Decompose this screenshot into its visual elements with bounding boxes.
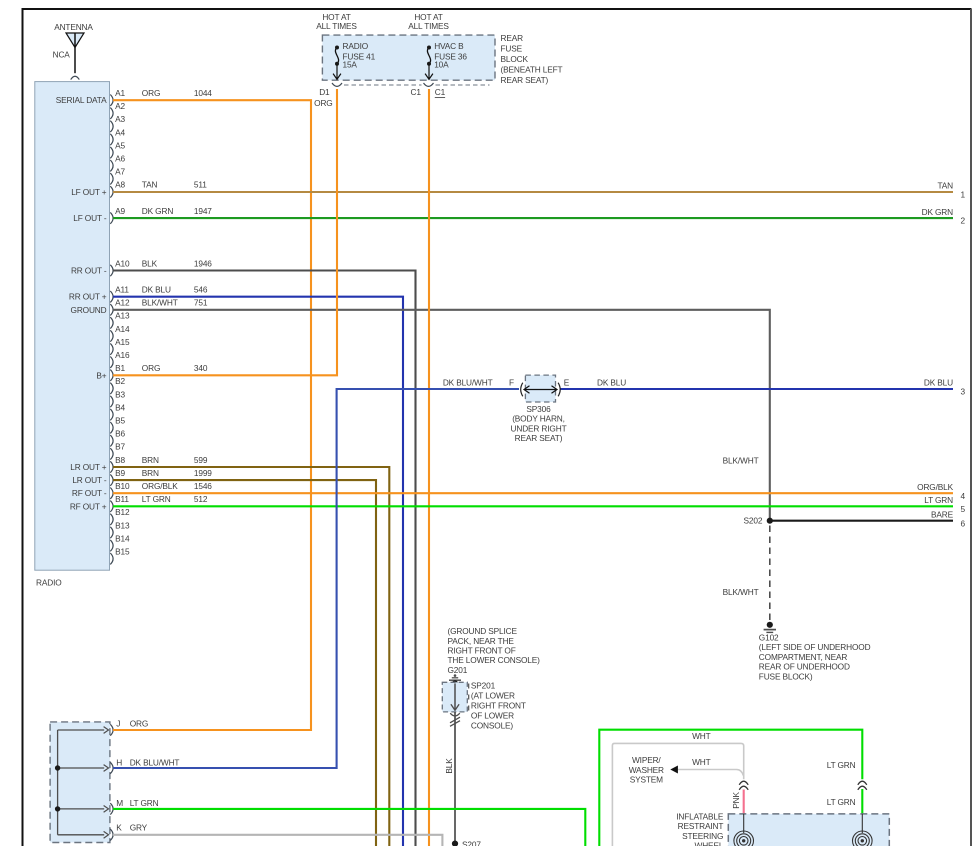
wire BLK from SP201 to S207 [454,712,456,846]
svg-text:6: 6 [961,518,966,528]
svg-text:ALL TIMES: ALL TIMES [316,21,357,31]
svg-text:HVAC B: HVAC B [434,41,464,51]
svg-text:A15: A15 [115,337,130,347]
wire DK BLU from SP306 to right edge [561,388,954,390]
svg-text:3: 3 [961,387,966,397]
svg-text:2: 2 [961,216,966,226]
svg-text:A1: A1 [115,88,125,98]
HOT AT ALL TIMES labels [316,12,449,31]
right edge circuit name labels and numbers [917,181,965,529]
svg-text:FUSE BLOCK): FUSE BLOCK) [759,671,813,681]
svg-text:1546: 1546 [194,481,212,491]
svg-text:REAR OF UNDERHOOD: REAR OF UNDERHOOD [759,662,850,672]
svg-text:UNDER RIGHT: UNDER RIGHT [511,423,567,433]
svg-text:D1: D1 [319,87,330,97]
coil lead left [743,814,745,833]
svg-text:THE LOWER CONSOLE): THE LOWER CONSOLE) [448,655,541,665]
svg-text:RIGHT FRONT: RIGHT FRONT [471,700,526,710]
svg-text:A16: A16 [115,350,130,360]
connector pin K [58,823,148,841]
svg-text:A11: A11 [115,285,129,295]
svg-text:NCA: NCA [53,49,71,59]
svg-text:B+: B+ [96,370,106,380]
svg-text:DK BLU: DK BLU [924,378,953,388]
svg-text:B8: B8 [115,455,125,465]
svg-text:ORG: ORG [314,98,332,108]
wire B1 ORG 340 to fuse D1 [113,89,337,375]
svg-text:B9: B9 [115,468,125,478]
svg-text:J: J [116,719,120,729]
svg-text:B12: B12 [115,507,130,517]
svg-text:LT GRN: LT GRN [142,494,171,504]
svg-text:SP201: SP201 [471,680,496,690]
radio pin function labels [56,95,107,511]
svg-text:ALL TIMES: ALL TIMES [408,21,449,31]
svg-text:B6: B6 [115,429,125,439]
break symbol LT GRN [858,781,867,790]
svg-text:COMPARTMENT, NEAR: COMPARTMENT, NEAR [759,652,848,662]
junction dot pin H [55,765,60,770]
svg-text:SYSTEM: SYSTEM [630,774,663,784]
svg-text:FUSE: FUSE [501,44,523,54]
svg-text:BLK: BLK [142,258,158,268]
svg-text:STEERING: STEERING [682,831,723,841]
svg-text:DK BLU: DK BLU [142,285,171,295]
svg-text:M: M [116,798,123,808]
svg-text:REAR SEAT): REAR SEAT) [501,75,549,85]
svg-text:WASHER: WASHER [629,765,664,775]
wire B8 BRN 599 [113,467,389,846]
splice S202 [744,516,773,526]
svg-text:LT GRN: LT GRN [827,760,856,770]
svg-text:G102: G102 [759,633,779,643]
splice pack SP201 dashed box [442,682,467,712]
svg-text:DK BLU/WHT: DK BLU/WHT [443,377,493,387]
svg-text:INFLATABLE: INFLATABLE [676,811,724,821]
svg-text:BLOCK: BLOCK [501,54,529,64]
svg-text:TAN: TAN [142,180,158,190]
REAR FUSE BLOCK caption [501,33,563,85]
svg-text:BLK/WHT: BLK/WHT [723,587,759,597]
SP201 caption [471,680,526,730]
wire A11 DK BLU 546 [113,297,403,846]
svg-text:B11: B11 [115,494,129,504]
svg-text:BLK/WHT: BLK/WHT [142,298,178,308]
wire B11 LT GRN 512 [113,505,953,507]
svg-text:1044: 1044 [194,88,212,98]
SP306 caption [511,404,567,443]
WIPER WASHER SYSTEM caption [629,755,664,784]
steering wheel module dashed box [728,814,889,846]
connector pin J [58,719,149,736]
radio connector box [35,82,110,571]
svg-text:LT GRN: LT GRN [924,495,953,505]
radio wire name and circuit number labels [142,88,212,504]
INFLATABLE RESTRAINT caption [676,811,724,846]
svg-text:ANTENNA: ANTENNA [54,22,93,32]
junction dot pin M [55,806,60,811]
svg-text:B15: B15 [115,547,130,557]
svg-text:A12: A12 [115,298,130,308]
wire BARE from S202 to right edge [770,520,953,522]
svg-text:TAN: TAN [937,181,953,191]
connector pin M [58,798,159,814]
svg-text:A4: A4 [115,127,125,137]
svg-text:B13: B13 [115,520,130,530]
svg-text:1: 1 [961,190,966,200]
wire A9 DK GRN 1947 [113,217,953,219]
svg-text:B2: B2 [115,376,125,386]
svg-text:A7: A7 [115,167,125,177]
svg-text:GROUND: GROUND [71,305,107,315]
svg-text:RADIO: RADIO [343,41,369,51]
connector C1 receptacle arc [424,83,434,86]
splice S207 [452,840,481,846]
svg-text:RF OUT +: RF OUT + [70,501,107,511]
svg-text:(AT LOWER: (AT LOWER [471,690,515,700]
svg-text:512: 512 [194,494,208,504]
svg-text:S207: S207 [462,840,481,846]
svg-text:A13: A13 [115,311,130,321]
svg-text:LT GRN: LT GRN [130,798,159,808]
svg-text:BRN: BRN [142,455,159,465]
svg-text:A2: A2 [115,101,125,111]
svg-text:A5: A5 [115,140,125,150]
connector D1 receptacle arc [332,83,342,86]
svg-text:B7: B7 [115,442,125,452]
splice SP306 dashed box [525,375,555,402]
SP306 double arrow [524,386,557,394]
svg-text:H: H [116,758,122,768]
svg-text:A6: A6 [115,154,125,164]
ground G102 symbol [764,622,776,633]
internal bus wire [57,730,59,835]
svg-text:SP306: SP306 [526,404,551,414]
wire M LT GRN [113,809,585,846]
svg-text:1999: 1999 [194,468,212,478]
svg-text:S202: S202 [744,516,763,526]
svg-text:RADIO: RADIO [36,578,62,588]
svg-text:BARE: BARE [931,509,954,519]
svg-text:DK BLU/WHT: DK BLU/WHT [130,758,180,768]
svg-text:B5: B5 [115,416,125,426]
svg-text:CONSOLE): CONSOLE) [471,721,514,731]
wire B10 ORG/BLK 1546 [113,492,953,494]
wire LT GRN horn circuit [599,730,862,846]
svg-text:ORG: ORG [142,363,160,373]
svg-text:LR OUT +: LR OUT + [70,462,107,472]
svg-text:K: K [116,823,122,833]
wire C1 ORG from fuse down [428,89,430,846]
coil lead right [861,814,863,833]
rear fuse block dashed box [322,35,495,80]
svg-text:PNK: PNK [731,791,741,808]
svg-text:340: 340 [194,363,208,373]
svg-text:546: 546 [194,285,208,295]
svg-text:ORG: ORG [142,88,160,98]
svg-text:LT GRN: LT GRN [827,797,856,807]
svg-text:B10: B10 [115,481,130,491]
wire J ORG stub [113,729,311,731]
svg-text:DK BLU: DK BLU [597,377,626,387]
G201 caption [448,626,541,675]
svg-text:A3: A3 [115,114,125,124]
svg-text:(BENEATH LEFT: (BENEATH LEFT [501,65,563,75]
svg-text:DK GRN: DK GRN [142,206,174,216]
svg-text:15A: 15A [343,59,358,69]
svg-text:(BODY HARN,: (BODY HARN, [512,414,565,424]
svg-text:(LEFT SIDE OF UNDERHOOD: (LEFT SIDE OF UNDERHOOD [759,642,871,652]
svg-text:WHEEL: WHEEL [695,841,724,846]
wire H DK BLU/WHT stub [113,767,337,769]
SP306 right paren [558,383,560,397]
svg-text:599: 599 [194,455,208,465]
svg-text:A8: A8 [115,180,125,190]
G102 caption [759,633,871,682]
wire A8 TAN 511 [113,191,953,193]
svg-text:ORG: ORG [130,719,148,729]
svg-text:G201: G201 [448,665,468,675]
ground G201 symbol [449,674,461,686]
fuse HVAC B FUSE 36 10A [425,41,467,79]
dashed BLK/WHT wire to G102 [769,526,771,622]
page border frame [22,9,24,846]
svg-text:REAR SEAT): REAR SEAT) [515,433,563,443]
svg-text:RR OUT +: RR OUT + [69,292,107,302]
wire A12 BLK/WHT 751 [113,310,770,519]
connector pin H [58,758,180,774]
svg-text:E: E [564,377,570,387]
break symbol WHT/PNK [739,781,748,790]
svg-text:B14: B14 [115,533,130,543]
svg-text:RR OUT -: RR OUT - [71,266,107,276]
coil right (clockspring) [853,831,873,846]
svg-text:C1: C1 [435,87,446,97]
svg-text:B4: B4 [115,402,125,412]
wire DK BLU/WHT from SP306 to connector H [113,389,519,768]
svg-text:511: 511 [194,180,207,190]
svg-text:A10: A10 [115,258,130,268]
svg-text:B3: B3 [115,389,125,399]
svg-text:LR OUT -: LR OUT - [72,475,107,485]
svg-text:WIPER/: WIPER/ [632,755,661,765]
svg-text:B1: B1 [115,363,125,373]
SP306 left paren [521,383,523,397]
antenna symbol [53,22,94,80]
wire B9 BRN 1999 [113,480,376,846]
svg-text:LF OUT +: LF OUT + [71,187,107,197]
wire K GRY [113,835,442,846]
svg-text:(GROUND SPLICE: (GROUND SPLICE [448,626,518,636]
wire PNK [743,790,745,814]
radio pin terminals and pin number labels [110,88,130,564]
svg-text:RESTRAINT: RESTRAINT [678,821,724,831]
wire A1 ORG serial data [113,100,311,730]
svg-text:OF LOWER: OF LOWER [471,710,514,720]
svg-text:ORG/BLK: ORG/BLK [142,481,178,491]
svg-text:LF OUT -: LF OUT - [73,213,107,223]
wire A10 BLK 1946 [113,271,416,846]
WHT wire to wiper system arrow [678,770,744,776]
svg-text:ORG/BLK: ORG/BLK [917,482,953,492]
svg-text:BLK: BLK [444,758,454,774]
svg-text:RIGHT FRONT OF: RIGHT FRONT OF [448,646,516,656]
svg-text:A14: A14 [115,324,130,334]
svg-text:5: 5 [961,504,966,514]
svg-text:F: F [509,377,514,387]
wiper arrow head [670,766,678,774]
svg-text:PACK, NEAR THE: PACK, NEAR THE [448,636,515,646]
SP201 internal arrow [451,683,459,710]
SP201 bracket marks [468,684,470,711]
svg-text:BRN: BRN [142,468,159,478]
coil left (clockspring) [734,831,754,846]
svg-text:WHT: WHT [692,757,711,767]
svg-text:4: 4 [961,491,966,501]
svg-text:BLK/WHT: BLK/WHT [723,456,759,466]
svg-text:WHT: WHT [692,731,711,741]
svg-text:C1: C1 [410,87,421,97]
svg-text:GRY: GRY [130,823,148,833]
svg-text:10A: 10A [434,59,449,69]
svg-text:SERIAL DATA: SERIAL DATA [56,95,107,105]
splice pack symbol below box [450,713,460,726]
svg-text:751: 751 [194,298,208,308]
svg-text:REAR: REAR [501,33,524,43]
svg-text:A9: A9 [115,206,125,216]
wiper washer system box [612,743,743,846]
connector dashed face line [344,84,422,86]
svg-text:1947: 1947 [194,206,212,216]
svg-text:DK GRN: DK GRN [922,207,954,217]
svg-text:1946: 1946 [194,258,212,268]
steering column connector dashed box [50,722,110,843]
svg-text:RF OUT -: RF OUT - [72,488,107,498]
fuse RADIO FUSE 41 15A [333,41,376,79]
